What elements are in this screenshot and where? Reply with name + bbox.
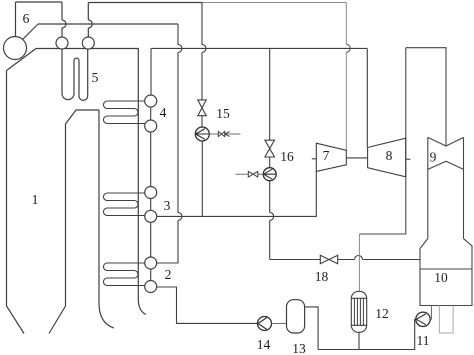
valve 16: [265, 140, 275, 157]
svg-text:3: 3: [164, 198, 171, 213]
wire turbine-7 feed vertical with hop over L5: [345, 3, 347, 151]
wire pump 15 suction stub with small valve and arrow: [209, 133, 240, 135]
flue duct 9 upper left wall down to HX12 branch: [359, 48, 405, 234]
wire riser A vertical with hop over L3: [61, 2, 63, 37]
wire between HX3 circles: [150, 199, 152, 211]
heat exchanger 2 top circle: [145, 257, 157, 269]
wire pump 14 discharge to tank 13: [272, 323, 287, 325]
wire HX12 outlet to bottom line: [358, 332, 360, 349]
wire L3 drum steam line: [38, 23, 178, 25]
svg-text:13: 13: [292, 341, 306, 355]
boiler 1 right wall and hopper right slope: [49, 110, 99, 334]
pump 11: [416, 312, 430, 326]
wire extraction line HX3 to turbine 7: [157, 171, 317, 216]
shaft stub left of turbine 7: [312, 158, 317, 160]
wire condenser to pump 11: [430, 306, 431, 320]
wire valve-15 branch vertical from L2 with hop: [201, 3, 203, 101]
wire pump 15 discharge down to extraction line: [201, 141, 203, 216]
heat exchanger 12 tube sheets: [351, 298, 366, 325]
svg-text:8: 8: [386, 148, 393, 163]
boiler 1 shoulder diagonal: [7, 49, 37, 71]
wire L2 riser B to valve-15 branch corner: [88, 2, 202, 4]
wire L1 drum to riser A top: [16, 1, 63, 3]
wire bottom condensate line: [318, 319, 416, 349]
wire HX2 outlet to feed pump 14: [157, 287, 258, 323]
svg-text:1: 1: [32, 192, 39, 207]
pump 15: [195, 127, 209, 141]
hop of exhaust line over HX12 feed: [355, 256, 363, 260]
wire HX12 feed vertical: [358, 234, 360, 291]
coil of heat exchanger 4: [103, 101, 145, 124]
svg-text:11: 11: [417, 333, 430, 348]
condenser 10 waterline: [420, 268, 472, 270]
boiler 1 left wall and hopper left slope: [7, 71, 25, 334]
wire HX3 to HX2: [150, 222, 152, 257]
condenser 10 flare and shell: [420, 239, 472, 306]
svg-text:6: 6: [23, 11, 30, 26]
svg-text:5: 5: [92, 70, 99, 85]
wire turbine 8 feed vertical from L5: [366, 48, 368, 147]
heat exchanger 12 tubes: [354, 298, 363, 325]
flue duct 9 V notch: [428, 137, 464, 146]
coil of heat exchanger 3: [103, 193, 145, 216]
hotwell drain below condenser: [439, 306, 453, 334]
svg-text:18: 18: [315, 269, 329, 284]
boiler 1 top edge and backpass right wall with bottom hook: [36, 49, 146, 315]
drum 6: [4, 37, 27, 60]
superheater 5 serpentine: [62, 49, 88, 100]
tank 13: [287, 300, 305, 333]
valve 18: [320, 255, 337, 264]
heat exchanger 4 top circle: [145, 95, 157, 107]
svg-text:7: 7: [323, 148, 330, 163]
wire drum riser vertical: [15, 2, 17, 37]
valve 15: [198, 100, 206, 116]
wire valve 15 to pump 15: [201, 116, 203, 127]
heat exchanger 2 bottom circle: [145, 281, 157, 293]
turbine 8: [368, 138, 406, 177]
svg-text:4: 4: [160, 105, 167, 120]
heat exchanger 3 bottom circle: [145, 210, 157, 222]
wire L2 light continuation to turbine-7 feed: [202, 2, 346, 4]
boiler second pass wall with bottom curve: [99, 110, 114, 328]
flue duct 9 chevron: [428, 161, 464, 169]
wire valve-16 branch vertical from L5: [269, 48, 271, 140]
wire between HX4 circles: [150, 107, 152, 120]
node circle B on riser: [82, 37, 94, 49]
wire between HX2 circles: [150, 269, 152, 281]
svg-text:2: 2: [165, 267, 172, 282]
wire HX4 to HX3: [150, 132, 152, 187]
svg-text:15: 15: [216, 106, 230, 121]
wire turbine exhaust line from pump 16 through valve 18 to condenser: [270, 259, 420, 261]
wire HX2 inlet vertical from L3 with hops: [157, 24, 178, 263]
wire pump 16 suction stub with small valve: [235, 173, 263, 175]
svg-text:12: 12: [375, 306, 389, 321]
svg-text:10: 10: [434, 270, 448, 285]
wire diagonal from drum 6 to L3: [22, 24, 38, 40]
shaft turbine 7 to turbine 8: [346, 157, 367, 159]
node circle A on riser: [56, 37, 68, 49]
flue duct 9 lower walls: [428, 137, 464, 238]
svg-text:16: 16: [280, 149, 294, 164]
wire riser B vertical with hop over L3: [87, 3, 89, 38]
flue duct 9 top edge and right wall: [406, 48, 446, 146]
svg-text:14: 14: [257, 337, 271, 352]
wire HX column feed vertical: [150, 48, 152, 95]
wire tank 13 outlet to bottom line: [305, 307, 319, 350]
turbine 7: [316, 143, 346, 171]
coil of heat exchanger 2: [103, 263, 145, 286]
pump 14: [258, 317, 272, 331]
svg-text:9: 9: [430, 150, 437, 165]
heat exchanger 12 shell: [351, 291, 366, 332]
wire valve 16 to pump 16: [269, 157, 271, 168]
wire L5 heat exchange header line: [151, 47, 367, 49]
pump 16: [263, 168, 276, 181]
heat exchanger 3 top circle: [145, 187, 157, 199]
heat exchanger 4 bottom circle: [145, 120, 157, 132]
wire pump 16 discharge down with hop over extraction line: [269, 181, 271, 260]
shaft stub right of turbine 8: [406, 158, 411, 160]
